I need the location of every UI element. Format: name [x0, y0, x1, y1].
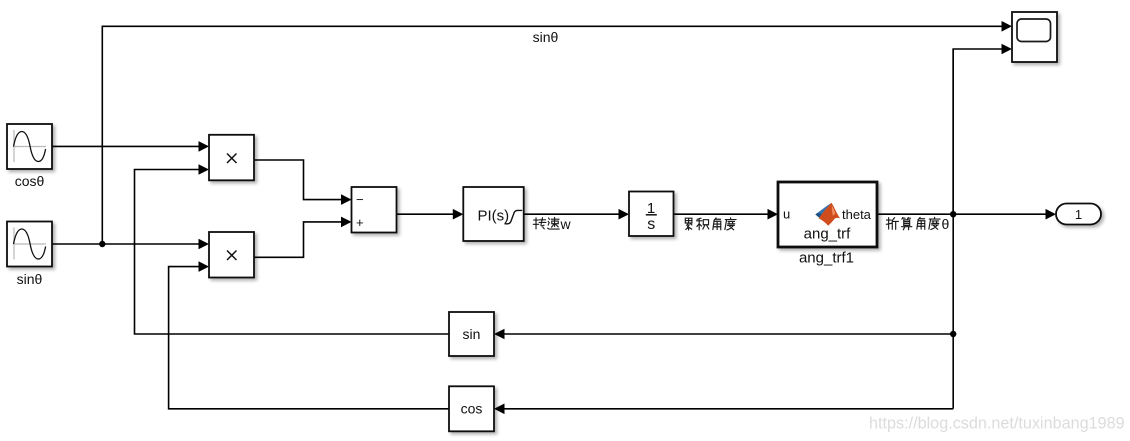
junction theta net to sin block — [950, 331, 956, 337]
wire cos block output to product2 input 2 — [169, 261, 449, 408]
svg-text:1: 1 — [1075, 207, 1082, 222]
wire sum output to PI controller input — [397, 209, 464, 220]
junction on sinθ net — [99, 241, 105, 247]
MATLAB logo — [815, 203, 840, 226]
svg-text:PI(s): PI(s) — [478, 208, 510, 225]
svg-text:sin: sin — [463, 326, 481, 342]
wire theta feedback vertical trunk — [952, 49, 954, 409]
outport 1 — [1056, 204, 1101, 225]
wire sin block output to product1 input 2 — [135, 164, 450, 334]
wire theta net to cos block input — [494, 404, 953, 415]
svg-text:https://blog.csdn.net/tuxinban: https://blog.csdn.net/tuxinbang1989 — [869, 415, 1125, 433]
wire integrator output to ang_trf input — [674, 209, 779, 220]
svg-text:ang_trf1: ang_trf1 — [799, 250, 854, 267]
svg-text:s: s — [647, 216, 655, 233]
wire theta net to sin block input — [494, 329, 953, 340]
wire ang_trf output to outport 1 — [877, 209, 1056, 220]
junction theta net at x=953 — [950, 211, 956, 217]
source block cosθ — [7, 124, 52, 169]
cos block — [449, 386, 494, 431]
sin block — [449, 312, 494, 356]
wire PI output to integrator input — [524, 209, 629, 220]
svg-text:−: − — [356, 192, 364, 207]
scope block — [1012, 12, 1057, 62]
net label 转速w — [533, 217, 559, 229]
wire theta net up to scope input 2 — [953, 44, 1012, 215]
svg-text:theta: theta — [842, 207, 872, 222]
svg-text:cosθ: cosθ — [15, 173, 45, 189]
wire sinθ net up and across top to scope input 1 — [102, 21, 1012, 244]
PI(s) controller block — [463, 187, 523, 241]
svg-text:cos: cos — [461, 401, 483, 417]
svg-text:θ: θ — [942, 216, 950, 232]
product block P2 — [209, 232, 254, 278]
svg-text:+: + — [356, 215, 364, 230]
source block sinθ — [7, 222, 52, 267]
svg-text:sinθ: sinθ — [533, 29, 559, 45]
svg-text:ang_trf: ang_trf — [804, 226, 852, 243]
product block P1 — [209, 135, 254, 181]
wire product2 output to sum plus input — [254, 217, 352, 258]
svg-text:u: u — [783, 207, 790, 222]
wire sinθ output to product2 input 1 — [52, 239, 209, 250]
net label 折算角度θ — [886, 217, 940, 229]
sum block Add — [352, 187, 397, 233]
MATLAB function block ang_trf — [778, 182, 877, 247]
net label 累积角度 — [685, 218, 736, 230]
wire cosθ output to product1 input 1 — [52, 141, 209, 152]
svg-text:w: w — [560, 216, 572, 232]
wire product1 output to sum minus input — [254, 160, 352, 205]
svg-text:sinθ: sinθ — [17, 271, 43, 287]
integrator block 1/s — [629, 192, 674, 237]
